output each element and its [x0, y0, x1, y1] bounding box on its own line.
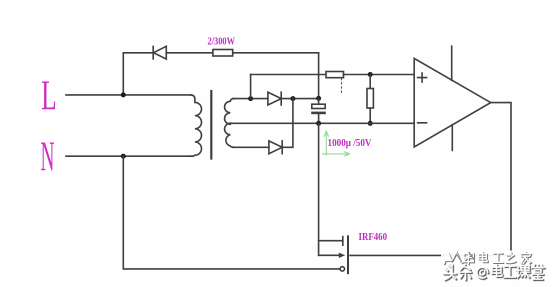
wire R2 top stub [369, 75, 371, 89]
watermark line2 touTiao at dianGongKeTang [445, 266, 546, 281]
svg-text:IRF460: IRF460 [359, 232, 388, 243]
capacitor C1 plates [311, 104, 326, 114]
green arrow vertical [324, 131, 328, 155]
resistor R3 horizontal [326, 72, 344, 78]
resistor R1 [213, 50, 233, 57]
transformer T1 secondary winding top half [225, 99, 235, 125]
junction dot C1 bottom on rail [316, 121, 321, 126]
junction dot R2 top [368, 72, 373, 77]
wire bypass top to diode [123, 52, 153, 54]
wire R1 to top-right corner [233, 52, 319, 54]
svg-text:1000μ /50V: 1000μ /50V [328, 138, 372, 149]
wire N branch down [122, 156, 124, 269]
wire R2 bottom stub [369, 108, 371, 123]
diode D1 (points left) [153, 46, 166, 59]
wire bypass riser from L junction up [122, 53, 124, 95]
op-amp U1 [414, 46, 491, 150]
wire top-right corner down to rectifier output node [318, 53, 320, 99]
junction dot at L [121, 92, 126, 97]
MOSFET Q1 arrow branch [319, 253, 346, 258]
junction dot rectifier output [316, 96, 321, 101]
transformer T1 primary winding [191, 95, 202, 156]
green arrow horizontal [323, 152, 350, 156]
capacitor C1 top stub [318, 98, 320, 104]
wire N input [66, 155, 191, 157]
junction dot diode cathodes [290, 96, 295, 101]
wire plus rail from riser to resistor R3 [251, 74, 326, 76]
wire gate riser down from minus rail [318, 123, 320, 255]
svg-text:2/300W: 2/300W [208, 36, 236, 47]
wire L input [66, 94, 191, 96]
dashed trimmer mark below R3 [341, 79, 343, 94]
wire center tap rail to op-amp minus input [230, 122, 414, 124]
transformer T1 secondary winding bottom half [225, 123, 235, 147]
junction dot at N [121, 154, 126, 159]
wire diode D1 to resistor R1 [166, 52, 213, 54]
MOSFET Q1 source terminal circle [340, 267, 344, 271]
MOSFET Q1 channel bar [347, 236, 349, 273]
wire riser from top tap junction to plus rail [250, 75, 252, 99]
svg-text:N: N [41, 135, 55, 181]
MOSFET Q1 gate bar [342, 237, 344, 246]
junction dot secondary top tap [248, 96, 253, 101]
wire op-amp output [491, 103, 511, 256]
resistor R2 vertical [367, 89, 373, 109]
watermark line1 logo dianGongZhiJia [445, 253, 532, 265]
capacitor C1 bottom stub [318, 114, 320, 123]
wire secondary bottom tap [233, 146, 269, 148]
svg-text:L: L [41, 73, 56, 119]
watermark logo accents [444, 252, 474, 262]
MOSFET Q1 gate branch [319, 240, 343, 242]
diode D3 (points right) [269, 141, 282, 154]
wire drain to right riser [350, 254, 511, 256]
wire secondary top tap [233, 98, 268, 100]
wire D2 cathode to rectifier node [281, 98, 318, 100]
wire source bottom rail [123, 268, 340, 270]
watermark backing [440, 251, 549, 282]
junction dot R2 bottom [368, 121, 373, 126]
diode D2 (points right) [268, 92, 281, 105]
wire D3 cathode up to diode junction [282, 99, 293, 148]
wire R3 to op-amp plus input [344, 74, 415, 76]
transformer T1 core [210, 91, 212, 159]
